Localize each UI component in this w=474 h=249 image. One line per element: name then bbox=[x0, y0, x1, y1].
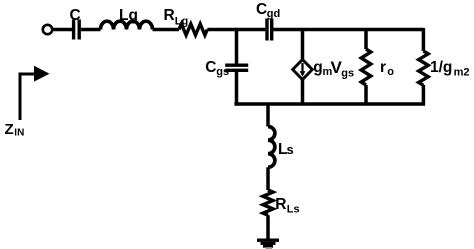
svg-text:o: o bbox=[387, 66, 394, 78]
svg-text:g: g bbox=[313, 59, 322, 76]
capacitor C bbox=[74, 20, 80, 40]
input terminal bbox=[43, 25, 52, 34]
wire bottom source rail bbox=[234, 102, 425, 106]
arrow Zin bbox=[20, 66, 50, 120]
inductor Lg bbox=[101, 21, 153, 29]
wire drain rail corner to 1/gm2 bbox=[422, 28, 426, 51]
svg-text:1/g: 1/g bbox=[430, 59, 452, 76]
inductor Ls bbox=[268, 127, 275, 168]
wire top rail right of Cgd bbox=[273, 28, 423, 32]
svg-text:R: R bbox=[164, 7, 175, 24]
wire RLs to ground bbox=[266, 215, 270, 239]
wire RLg to gate node and Cgd bbox=[207, 28, 265, 32]
resistor 1/gm2 bbox=[419, 51, 429, 85]
svg-text:C: C bbox=[205, 59, 216, 76]
wire drain rail to gm source bbox=[301, 30, 305, 60]
wire gate down to Cgs bbox=[235, 28, 239, 64]
svg-text:C: C bbox=[256, 1, 267, 18]
svg-text:Lg: Lg bbox=[119, 7, 138, 24]
resistor ro bbox=[361, 49, 371, 85]
wire gm source to bottom rail bbox=[301, 80, 305, 105]
wire drain rail to ro bbox=[364, 30, 368, 50]
svg-text:Lg: Lg bbox=[175, 15, 188, 27]
wire 1/gm2 to bottom rail bbox=[422, 85, 426, 106]
capacitor Cgd bbox=[267, 19, 272, 41]
svg-text:Z: Z bbox=[5, 121, 14, 138]
ground bbox=[257, 240, 279, 248]
svg-text:gs: gs bbox=[216, 66, 229, 78]
wire C to Lg bbox=[81, 28, 101, 32]
svg-text:m2: m2 bbox=[454, 67, 470, 79]
wire ro to bottom rail bbox=[364, 85, 368, 104]
wire Cgs to source rail bbox=[235, 72, 239, 106]
wire Ls to RLs bbox=[266, 167, 270, 190]
resistor RLs bbox=[263, 190, 273, 215]
svg-text:r: r bbox=[380, 59, 386, 76]
svg-text:C: C bbox=[70, 7, 81, 24]
wire Lg to RLg bbox=[153, 28, 180, 32]
resistor RLg bbox=[179, 24, 207, 35]
svg-text:gd: gd bbox=[267, 8, 280, 20]
capacitor Cgs bbox=[225, 65, 248, 70]
wire terminal to C bbox=[53, 28, 73, 32]
svg-text:IN: IN bbox=[14, 127, 24, 138]
dependent source gmVgs bbox=[293, 60, 313, 80]
svg-text:gs: gs bbox=[341, 68, 354, 80]
svg-text:s: s bbox=[287, 142, 294, 157]
svg-text:Ls: Ls bbox=[287, 203, 300, 215]
svg-text:R: R bbox=[275, 196, 286, 213]
wire source rail down to Ls bbox=[266, 104, 270, 127]
